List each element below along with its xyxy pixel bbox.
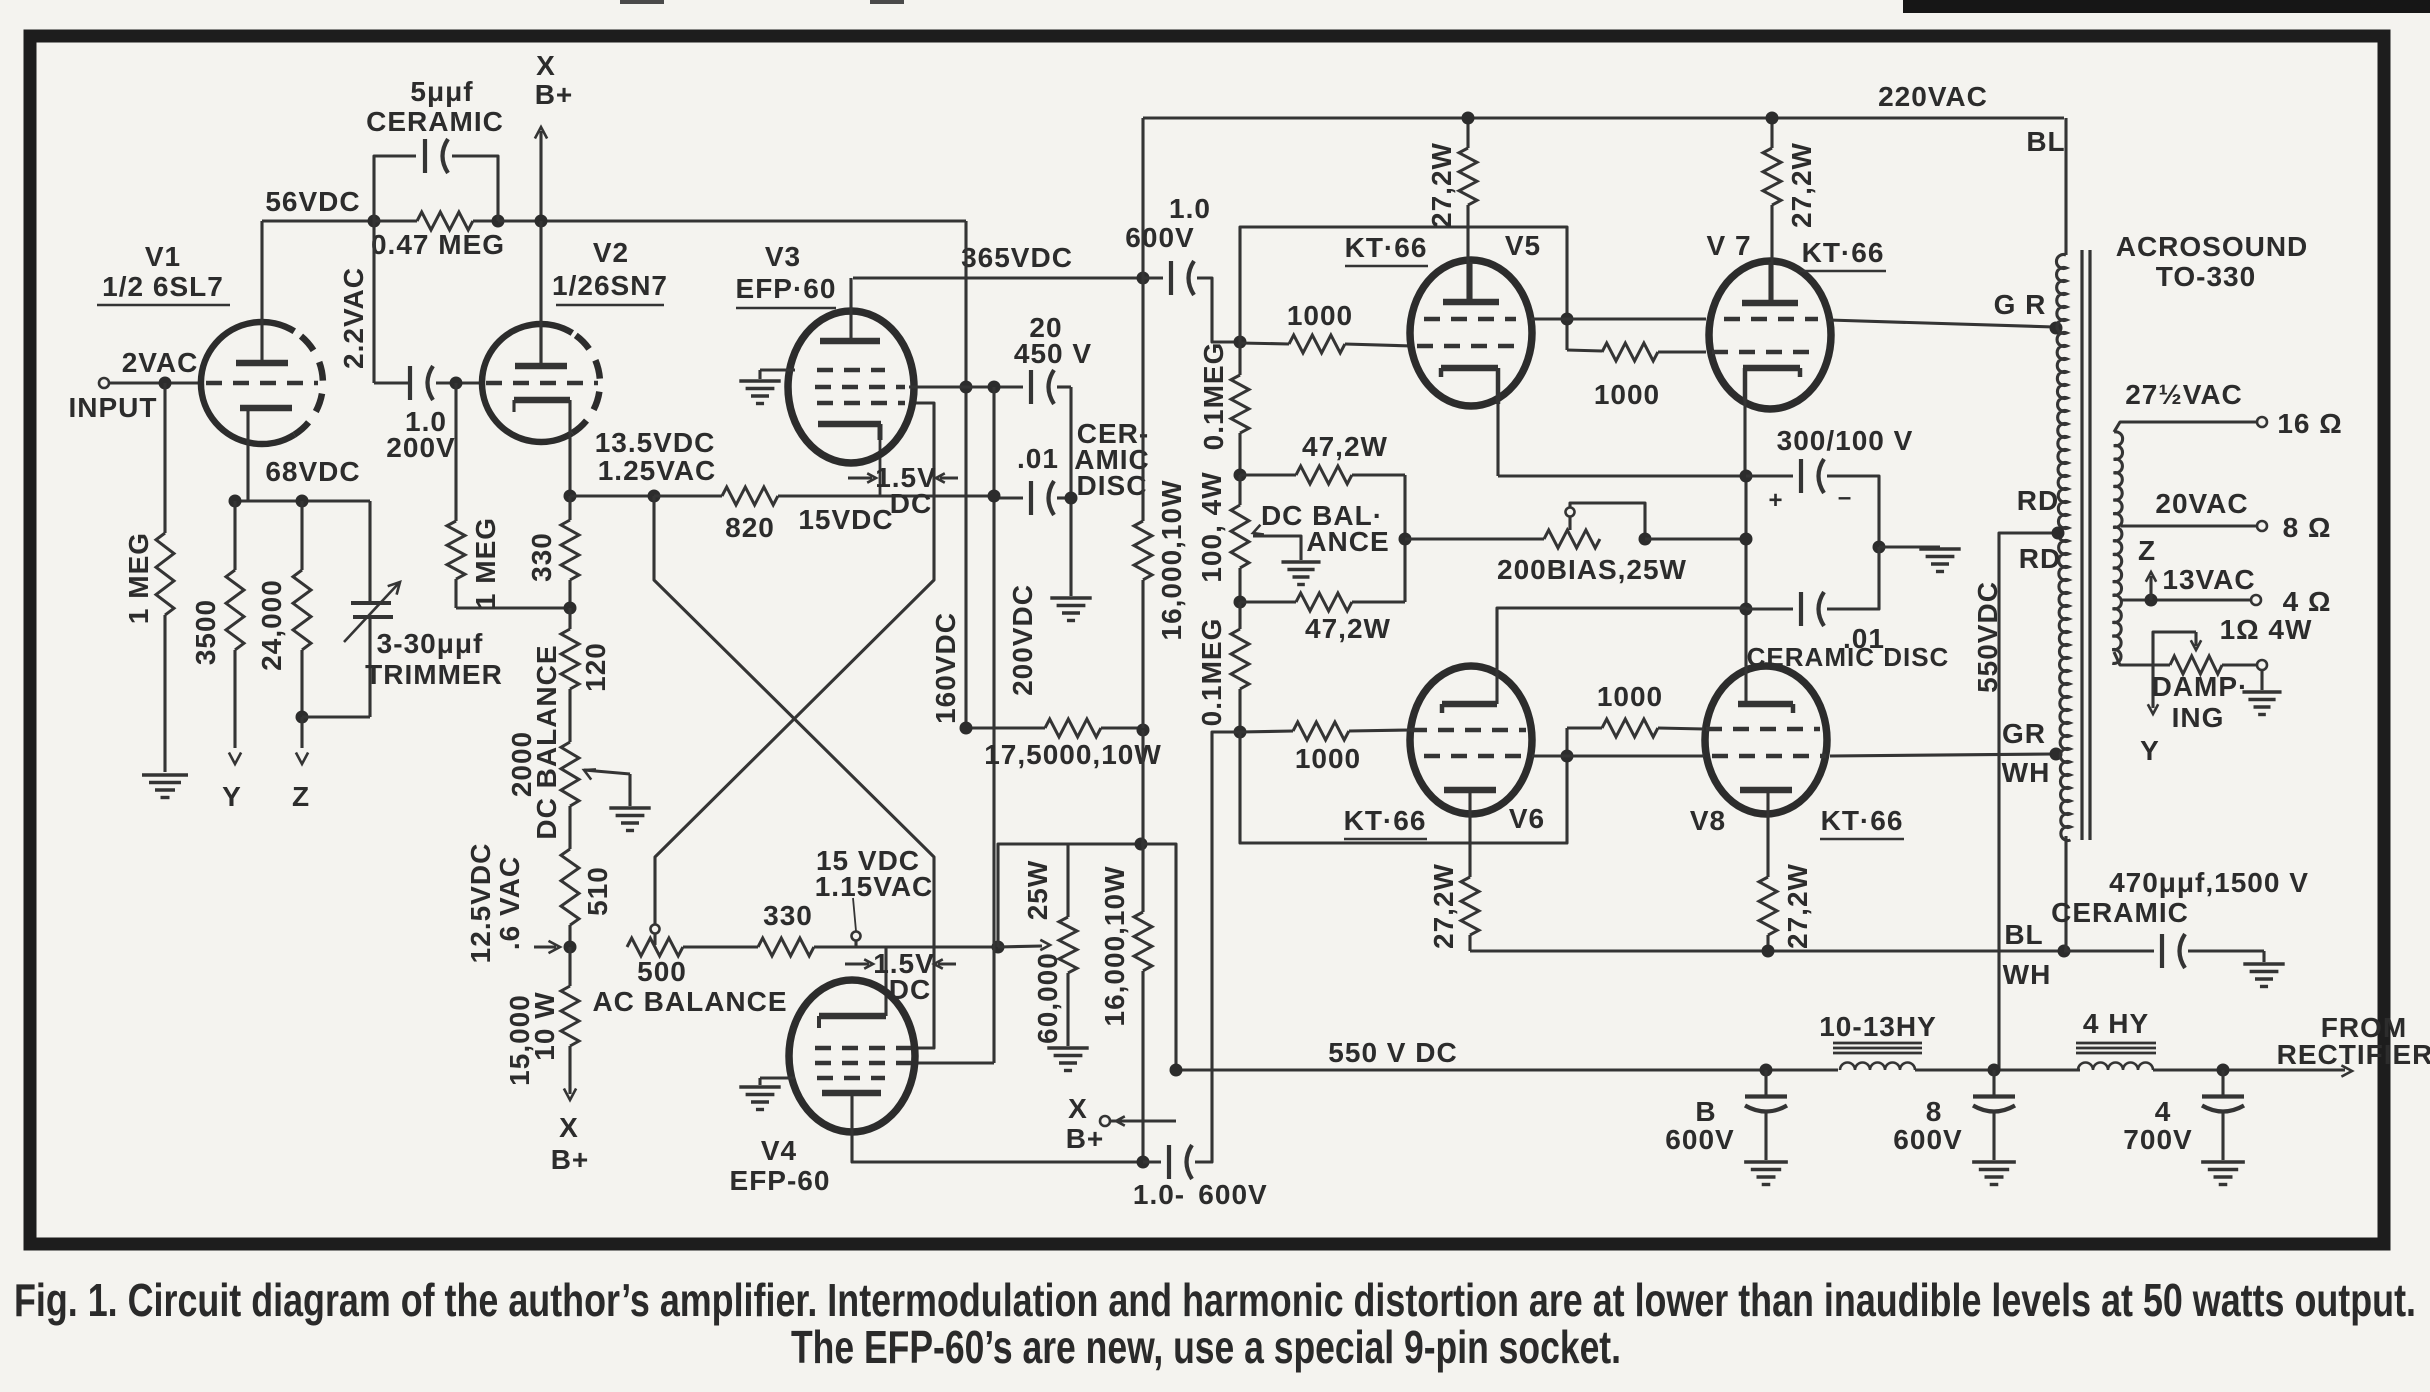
V1 cathode bbox=[240, 405, 292, 412]
svg-text:–: – bbox=[1838, 484, 1852, 511]
wire 60000 pot node bbox=[886, 945, 998, 948]
svg-text:600V: 600V bbox=[1893, 1124, 1962, 1155]
node V3 screen bbox=[960, 381, 973, 394]
wire V7 cathode column bbox=[1743, 400, 1746, 476]
svg-text:13.5VDC: 13.5VDC bbox=[595, 427, 716, 458]
trimmer capacitor 3-30uuf bbox=[368, 501, 371, 601]
V8 grids bbox=[1706, 727, 1820, 732]
svg-text:47,2W: 47,2W bbox=[1302, 431, 1388, 462]
svg-text:KT·66: KT·66 bbox=[1821, 805, 1904, 836]
node 365VDC bbox=[1137, 272, 1150, 285]
terminal Z arrow bbox=[300, 717, 303, 748]
svg-text:EFP-60: EFP-60 bbox=[730, 1165, 831, 1196]
svg-text:1/2 6SL7: 1/2 6SL7 bbox=[102, 271, 224, 302]
svg-text:Y: Y bbox=[222, 781, 242, 812]
svg-text:68VDC: 68VDC bbox=[265, 456, 360, 487]
node cathode caps top bbox=[1740, 470, 1753, 483]
terminal Y arrow bbox=[229, 753, 241, 765]
svg-text:60,000: 60,000 bbox=[1032, 952, 1063, 1044]
annotation 1.5V DC V4 bbox=[845, 962, 869, 965]
svg-text:V2: V2 bbox=[593, 237, 629, 268]
resistor 330 cathode V2 bbox=[568, 496, 571, 520]
node V5 grid network top bbox=[1234, 336, 1247, 349]
svg-text:8: 8 bbox=[1926, 1096, 1943, 1127]
svg-text:X: X bbox=[1068, 1093, 1088, 1124]
svg-text:25W: 25W bbox=[1022, 860, 1053, 921]
V4 plate bbox=[822, 1090, 881, 1097]
svg-text:V6: V6 bbox=[1509, 803, 1545, 834]
annotation 1.5V DC V3 bbox=[848, 476, 872, 479]
svg-text:1 MEG: 1 MEG bbox=[123, 532, 154, 624]
wire to rectifier bbox=[2153, 1068, 2345, 1071]
V1 grid bbox=[206, 381, 318, 386]
resistor 15,000 10W bbox=[568, 947, 571, 986]
resistor 47 2W lower bbox=[1240, 600, 1296, 603]
svg-text:8 Ω: 8 Ω bbox=[2283, 512, 2332, 543]
node GR lower bbox=[2050, 748, 2063, 761]
svg-text:510: 510 bbox=[582, 866, 613, 916]
svg-text:X: X bbox=[536, 50, 556, 81]
wire V2 output cross to V4 grid bbox=[654, 496, 934, 1048]
node screen bus bbox=[1561, 313, 1574, 326]
svg-text:1.0-: 1.0- bbox=[1133, 1179, 1185, 1210]
svg-text:B: B bbox=[1695, 1096, 1716, 1127]
svg-text:V4: V4 bbox=[761, 1135, 797, 1166]
svg-text:300/100 V: 300/100 V bbox=[1777, 425, 1914, 456]
node trimmer bottom bbox=[296, 711, 309, 724]
svg-text:ING: ING bbox=[2172, 702, 2225, 733]
svg-text:0.47 MEG: 0.47 MEG bbox=[371, 229, 505, 260]
V3 cathode bbox=[818, 421, 881, 428]
svg-text:17,5000,10W: 17,5000,10W bbox=[984, 739, 1162, 770]
net Y arrow bbox=[2151, 665, 2154, 708]
svg-text:1Ω 4W: 1Ω 4W bbox=[2220, 614, 2313, 645]
node disc cap bbox=[1065, 492, 1078, 505]
svg-text:KT·66: KT·66 bbox=[1802, 237, 1885, 268]
svg-text:ANCE: ANCE bbox=[1306, 526, 1389, 557]
capacitor 1.0 600V coupling bbox=[1143, 276, 1163, 279]
node bottom coupling bbox=[1137, 1156, 1150, 1169]
resistor 0.1MEG lower bbox=[1238, 602, 1241, 629]
V7 cathode bbox=[1743, 365, 1800, 372]
wire coupling 2.2VAC leg bbox=[372, 221, 375, 383]
svg-text:16,000,10W: 16,000,10W bbox=[1156, 480, 1187, 641]
V7 plate bbox=[1742, 300, 1798, 307]
wire 8 ohm tap bbox=[2121, 524, 2256, 527]
svg-text:Z: Z bbox=[2138, 535, 2156, 566]
resistor 27 2W V7 plate bbox=[1770, 118, 1773, 148]
node V5 plate rail bbox=[1462, 112, 1475, 125]
resistor 0.47 MEG bbox=[374, 219, 417, 222]
resistor 510 bbox=[568, 806, 571, 849]
V2 cathode bbox=[514, 397, 570, 404]
node bias right bbox=[1639, 533, 1652, 546]
svg-text:0.1MEG: 0.1MEG bbox=[1196, 618, 1227, 727]
node screen bus lower bbox=[1561, 750, 1574, 763]
svg-text:550VDC: 550VDC bbox=[1972, 581, 2003, 693]
svg-text:3-30μμf: 3-30μμf bbox=[377, 628, 484, 659]
V6 cathode top bbox=[1442, 701, 1497, 708]
capacitor B 600V bbox=[1764, 1070, 1767, 1097]
resistor 1 MEG V2 grid bbox=[454, 383, 457, 521]
svg-text:G R: G R bbox=[1994, 289, 2047, 320]
svg-text:Y: Y bbox=[2140, 735, 2160, 766]
wire GR upper to transformer bbox=[1829, 320, 2054, 327]
potentiometer 100 4W DC BAL bbox=[1231, 505, 1249, 568]
svg-text:47,2W: 47,2W bbox=[1305, 613, 1391, 644]
svg-text:CERAMIC: CERAMIC bbox=[366, 106, 504, 137]
node disc lower bbox=[1740, 603, 1753, 616]
capacitor 8 600V bbox=[1992, 1070, 1995, 1097]
svg-text:X: X bbox=[559, 1112, 579, 1143]
V5 plate bbox=[1443, 299, 1499, 306]
svg-text:1 MEG: 1 MEG bbox=[470, 517, 501, 609]
wire V4 plate to coupling bbox=[852, 1130, 1143, 1162]
svg-text:700V: 700V bbox=[2123, 1124, 2192, 1155]
node ground link bbox=[1873, 541, 1886, 554]
potentiometer 500 AC BALANCE bbox=[627, 938, 683, 956]
node V8 plate rail bbox=[1762, 945, 1775, 958]
wire lower grid strap bbox=[1240, 728, 1567, 843]
resistor 0.1MEG upper bbox=[1238, 343, 1241, 375]
node 47 mid bbox=[1399, 533, 1412, 546]
svg-text:BL: BL bbox=[2026, 126, 2065, 157]
capacitor 470uuf 1500V bbox=[2064, 949, 2154, 952]
wire riser to 550 rail bbox=[1141, 844, 1176, 1070]
node 330 bottom bbox=[564, 602, 577, 615]
wire 16 ohm tap bbox=[2114, 422, 2256, 432]
svg-text:V1: V1 bbox=[145, 241, 181, 272]
svg-text:1.25VAC: 1.25VAC bbox=[598, 455, 717, 486]
node 17500 left bbox=[960, 722, 973, 735]
annotation arrow 12.5VDC bbox=[534, 945, 556, 948]
resistor 1000 V5 grid bbox=[1240, 343, 1289, 344]
svg-text:27,2W: 27,2W bbox=[1426, 142, 1457, 228]
wire to 330 grid resistor bbox=[683, 945, 758, 948]
V7 grids bbox=[1724, 317, 1818, 322]
input terminal bbox=[99, 378, 109, 388]
transformer core bbox=[2080, 250, 2083, 840]
wire cathode bus to 200VDC rail bbox=[880, 494, 994, 497]
svg-text:B+: B+ bbox=[551, 1144, 590, 1175]
node B+ V2 plate bbox=[535, 215, 548, 228]
ground V4 bbox=[760, 1076, 795, 1079]
V8 plate bbox=[1740, 787, 1792, 794]
tube V3 EFP-60 bbox=[788, 311, 914, 463]
wire V3 grid cross to V4 side bbox=[655, 403, 934, 925]
svg-text:V 7: V 7 bbox=[1706, 230, 1751, 261]
resistor 120 bbox=[568, 608, 571, 629]
capacitor 20 450V bbox=[966, 385, 1023, 388]
svg-text:The EFP-60’s are new, use a sp: The EFP-60’s are new, use a special 9-pi… bbox=[791, 1321, 1621, 1373]
svg-text:KT·66: KT·66 bbox=[1345, 232, 1428, 263]
svg-text:WH: WH bbox=[2002, 757, 2051, 788]
wire V6 top feed bbox=[1497, 608, 1746, 704]
svg-text:600V: 600V bbox=[1665, 1124, 1734, 1155]
svg-text:RECTIFIER: RECTIFIER bbox=[2277, 1039, 2430, 1070]
svg-text:B+: B+ bbox=[1066, 1123, 1105, 1154]
svg-text:27½VAC: 27½VAC bbox=[2125, 379, 2243, 410]
wire cross feed to V7 screens bbox=[1240, 227, 1567, 350]
svg-text:10-13HY: 10-13HY bbox=[1819, 1011, 1937, 1042]
capacitor .01 ceramic disc bbox=[994, 496, 1023, 499]
node 0.47MEG right bbox=[492, 215, 505, 228]
ground ceramic disc bbox=[1069, 498, 1072, 596]
resistor 24,000 bbox=[300, 501, 303, 570]
wire WH bottom lead bbox=[2064, 836, 2067, 951]
V4 grid rows bbox=[815, 1046, 911, 1051]
svg-text:100, 4W: 100, 4W bbox=[1196, 471, 1227, 582]
svg-text:27,2W: 27,2W bbox=[1782, 863, 1813, 949]
svg-text:16 Ω: 16 Ω bbox=[2277, 408, 2342, 439]
wire V5 cathode down bbox=[1496, 404, 1499, 476]
tube V5 KT-66 bbox=[1410, 260, 1532, 406]
wire 550 VDC rail bbox=[1176, 1068, 1838, 1071]
wire V2 plate stem bbox=[539, 221, 542, 366]
wire V3 screen bbox=[909, 385, 966, 388]
wire BL top lead bbox=[2064, 118, 2067, 255]
scan speck top left bbox=[620, 0, 664, 4]
node V2 cathode bbox=[564, 490, 577, 503]
wire top 220VAC rail bbox=[1141, 118, 1144, 278]
V6 grids bbox=[1411, 728, 1526, 733]
wire B+ rail to 160VDC drop bbox=[498, 219, 966, 222]
resistor 16,000 10W lower bbox=[1141, 730, 1144, 912]
svg-text:DC: DC bbox=[889, 974, 931, 1005]
node 8 cap bbox=[1988, 1064, 2001, 1077]
svg-text:DISC: DISC bbox=[1077, 470, 1148, 501]
svg-text:600V: 600V bbox=[1198, 1179, 1267, 1210]
tube V6 KT-66 bbox=[1410, 666, 1532, 814]
svg-text:AC BALANCE: AC BALANCE bbox=[592, 986, 787, 1017]
svg-text:1/26SN7: 1/26SN7 bbox=[552, 270, 668, 301]
node 550 left bbox=[1170, 1064, 1183, 1077]
V1 plate bbox=[236, 360, 288, 367]
net Z arrow bbox=[2149, 576, 2152, 600]
capacitor 1.0 200V bbox=[374, 381, 410, 384]
choke 4HY bbox=[2076, 1042, 2156, 1045]
resistor 330 V4 bbox=[758, 938, 814, 956]
scan artifact black bar top right bbox=[1903, 0, 2430, 13]
svg-text:DC BALANCE: DC BALANCE bbox=[531, 644, 562, 839]
svg-text:24,000: 24,000 bbox=[256, 579, 287, 671]
svg-text:RD: RD bbox=[2017, 485, 2059, 516]
scan speck top mid bbox=[870, 0, 904, 4]
capacitor 5uuf ceramic bbox=[374, 156, 416, 221]
wire 365VDC bbox=[853, 276, 1143, 279]
svg-text:Fig. 1. Circuit diagram of the: Fig. 1. Circuit diagram of the author’s … bbox=[14, 1274, 2416, 1326]
svg-text:3500: 3500 bbox=[190, 599, 221, 665]
svg-text:V5: V5 bbox=[1505, 230, 1541, 261]
resistor 3500 bbox=[233, 501, 236, 570]
node B cap bbox=[1760, 1064, 1773, 1077]
svg-text:2VAC: 2VAC bbox=[122, 347, 199, 378]
svg-text:DAMP·: DAMP· bbox=[2152, 671, 2249, 702]
node 820 left bbox=[648, 490, 661, 503]
svg-text:KT·66: KT·66 bbox=[1344, 805, 1427, 836]
V8 cathode top bbox=[1738, 701, 1793, 708]
B+ terminal X mid bbox=[1100, 1116, 1110, 1126]
ground 470uuf bbox=[2243, 962, 2284, 965]
svg-text:330: 330 bbox=[763, 900, 813, 931]
svg-text:2.2VAC: 2.2VAC bbox=[338, 267, 369, 369]
potentiometer 200 BIAS 25W bbox=[1544, 530, 1600, 548]
svg-text:820: 820 bbox=[725, 512, 775, 543]
damping network 1 ohm 4W bbox=[2114, 652, 2170, 665]
node V6 grid bbox=[1234, 726, 1247, 739]
svg-text:TO-330: TO-330 bbox=[2156, 261, 2256, 292]
node divider mid upper bbox=[1234, 469, 1247, 482]
capacitor 300/100V bbox=[1746, 474, 1793, 477]
node input junction bbox=[159, 377, 172, 390]
node bias mid bbox=[1740, 533, 1753, 546]
choke 10-13HY bbox=[1833, 1042, 1922, 1045]
capacitor 4 700V bbox=[2221, 1070, 2224, 1097]
wire V3 cathode drop bbox=[879, 437, 882, 496]
svg-text:1000: 1000 bbox=[1594, 379, 1660, 410]
svg-text:DC: DC bbox=[890, 488, 932, 519]
V5 grids bbox=[1424, 317, 1516, 322]
ground 1 MEG bbox=[142, 773, 188, 776]
svg-text:1.0: 1.0 bbox=[1169, 193, 1211, 224]
ground V3 bbox=[760, 368, 795, 371]
tube V8 KT-66 bbox=[1705, 666, 1827, 814]
svg-text:BL: BL bbox=[2004, 919, 2043, 950]
svg-text:500: 500 bbox=[637, 956, 687, 987]
svg-text:550 V DC: 550 V DC bbox=[1328, 1037, 1457, 1068]
svg-text:200VDC: 200VDC bbox=[1007, 584, 1038, 696]
resistor 1000 V8 grid bbox=[1567, 726, 1602, 729]
capacitor 1.0 600V bottom bbox=[1143, 1160, 1161, 1163]
node cathode 200VDC bbox=[988, 490, 1001, 503]
resistor 27 2W V6 bbox=[1461, 877, 1479, 935]
node V2 grid bbox=[450, 377, 463, 390]
svg-text:1000: 1000 bbox=[1597, 681, 1663, 712]
node 4 cap bbox=[2217, 1064, 2230, 1077]
svg-text:10 W: 10 W bbox=[529, 991, 560, 1060]
transformer secondary winding bbox=[2112, 432, 2122, 664]
svg-text:1.15VAC: 1.15VAC bbox=[815, 871, 934, 902]
wire V1 plate to 56VDC node bbox=[260, 221, 263, 322]
wire V4 cathode stem bbox=[884, 947, 887, 1016]
svg-text:GR: GR bbox=[2002, 718, 2046, 749]
node 56VDC bbox=[368, 215, 381, 228]
transformer primary winding bbox=[2056, 255, 2070, 841]
svg-text:600V: 600V bbox=[1125, 222, 1194, 253]
svg-text:27,2W: 27,2W bbox=[1428, 863, 1459, 949]
svg-text:330: 330 bbox=[526, 532, 557, 582]
wire GR lower to transformer bbox=[1830, 754, 2054, 756]
wire bias to 200 BIAS pot bbox=[1405, 537, 1544, 540]
svg-text:365VDC: 365VDC bbox=[961, 242, 1073, 273]
svg-text:220VAC: 220VAC bbox=[1878, 81, 1988, 112]
svg-text:27,2W: 27,2W bbox=[1786, 142, 1817, 228]
svg-text:TRIMMER: TRIMMER bbox=[365, 659, 503, 690]
svg-text:WH: WH bbox=[2003, 959, 2052, 990]
svg-text:160VDC: 160VDC bbox=[930, 612, 961, 724]
wire bottom plate rail BL bbox=[1470, 949, 2064, 952]
svg-text:0.1MEG: 0.1MEG bbox=[1198, 342, 1229, 451]
wire RD tap 550VDC bbox=[1999, 533, 2058, 1070]
resistor 47 2W upper bbox=[1240, 473, 1296, 476]
svg-text:.01: .01 bbox=[1017, 443, 1059, 474]
tube V2 1/2 6SN7 bbox=[482, 324, 572, 442]
svg-text:INPUT: INPUT bbox=[69, 392, 158, 423]
svg-text:4: 4 bbox=[2155, 1096, 2172, 1127]
svg-text:20VAC: 20VAC bbox=[2155, 488, 2248, 519]
wire screen bus V5 to V7 bbox=[1531, 317, 1706, 320]
svg-text:B+: B+ bbox=[535, 79, 574, 110]
resistor 820 bbox=[654, 494, 722, 497]
ground damping bbox=[2260, 670, 2263, 690]
wire cathode to 820 bbox=[570, 494, 654, 497]
tube V4 EFP-60 bbox=[789, 980, 915, 1132]
svg-text:ACROSOUND: ACROSOUND bbox=[2116, 231, 2309, 262]
svg-text:5μμf: 5μμf bbox=[410, 76, 473, 107]
svg-text:+: + bbox=[1768, 487, 1783, 514]
resistor 16,000 10W upper bbox=[1141, 278, 1144, 521]
svg-text:200BIAS,25W: 200BIAS,25W bbox=[1497, 554, 1687, 585]
wire input to V1 grid bbox=[109, 381, 204, 384]
wire V8 top stem bbox=[1744, 666, 1747, 704]
wire screen bus V6 to V8 bbox=[1532, 754, 1704, 757]
capacitor .01 ceramic disc output bbox=[1746, 607, 1793, 610]
V6 plate bbox=[1444, 787, 1496, 794]
V5 cathode bbox=[1441, 365, 1498, 372]
ground 60,000 pot bbox=[1047, 1046, 1088, 1049]
tube V1 1/2 6SL7 bbox=[201, 322, 294, 444]
node 17500 right bbox=[1137, 724, 1150, 737]
potentiometer 60,000 25W bbox=[998, 844, 1068, 947]
svg-text:120: 120 bbox=[580, 642, 611, 692]
wire V1 cathode to 68VDC bus bbox=[246, 420, 249, 501]
svg-text:.6 VAC: .6 VAC bbox=[494, 856, 525, 950]
rail 200VDC bbox=[992, 387, 995, 1063]
svg-text:56VDC: 56VDC bbox=[265, 186, 360, 217]
testpoint 15VDC 1.15VAC bbox=[852, 932, 861, 941]
svg-text:V3: V3 bbox=[765, 241, 801, 272]
svg-text:12.5VDC: 12.5VDC bbox=[465, 843, 496, 964]
node 200VDC top bbox=[988, 381, 1001, 394]
svg-text:1000: 1000 bbox=[1287, 300, 1353, 331]
svg-text:16,000,10W: 16,000,10W bbox=[1099, 866, 1130, 1027]
potentiometer 2000 DC BALANCE bbox=[561, 742, 579, 806]
rail 160VDC bbox=[964, 221, 967, 728]
resistor 27 2W V8 bbox=[1759, 877, 1777, 935]
svg-text:RD: RD bbox=[2019, 543, 2061, 574]
svg-text:470μμf,1500 V: 470μμf,1500 V bbox=[2109, 867, 2309, 898]
ground DC balance bbox=[609, 806, 650, 809]
V3 plate bbox=[820, 338, 880, 345]
node divider mid lower bbox=[1234, 596, 1247, 609]
resistor 1 MEG input bbox=[163, 383, 166, 533]
svg-text:13VAC: 13VAC bbox=[2162, 564, 2255, 595]
svg-text:CERAMIC: CERAMIC bbox=[2051, 897, 2189, 928]
node BL bottom bbox=[2058, 945, 2071, 958]
wire pot bracket to 16000 line bbox=[1068, 842, 1141, 845]
wire 330 to V4 cathode bbox=[814, 945, 886, 948]
svg-text:15VDC: 15VDC bbox=[798, 504, 893, 535]
resistor 17,500 10W bbox=[966, 726, 1045, 729]
tube V7 KT-66 bbox=[1709, 261, 1831, 409]
wire 68VDC bus bbox=[235, 499, 370, 502]
node GR upper bbox=[2050, 322, 2063, 335]
resistor 1000 V7 grid bbox=[1567, 350, 1602, 351]
svg-text:200V: 200V bbox=[386, 432, 455, 463]
wire between chokes bbox=[1915, 1068, 2080, 1071]
svg-text:4 HY: 4 HY bbox=[2083, 1008, 2149, 1039]
damping pot bracket bbox=[2153, 632, 2196, 665]
